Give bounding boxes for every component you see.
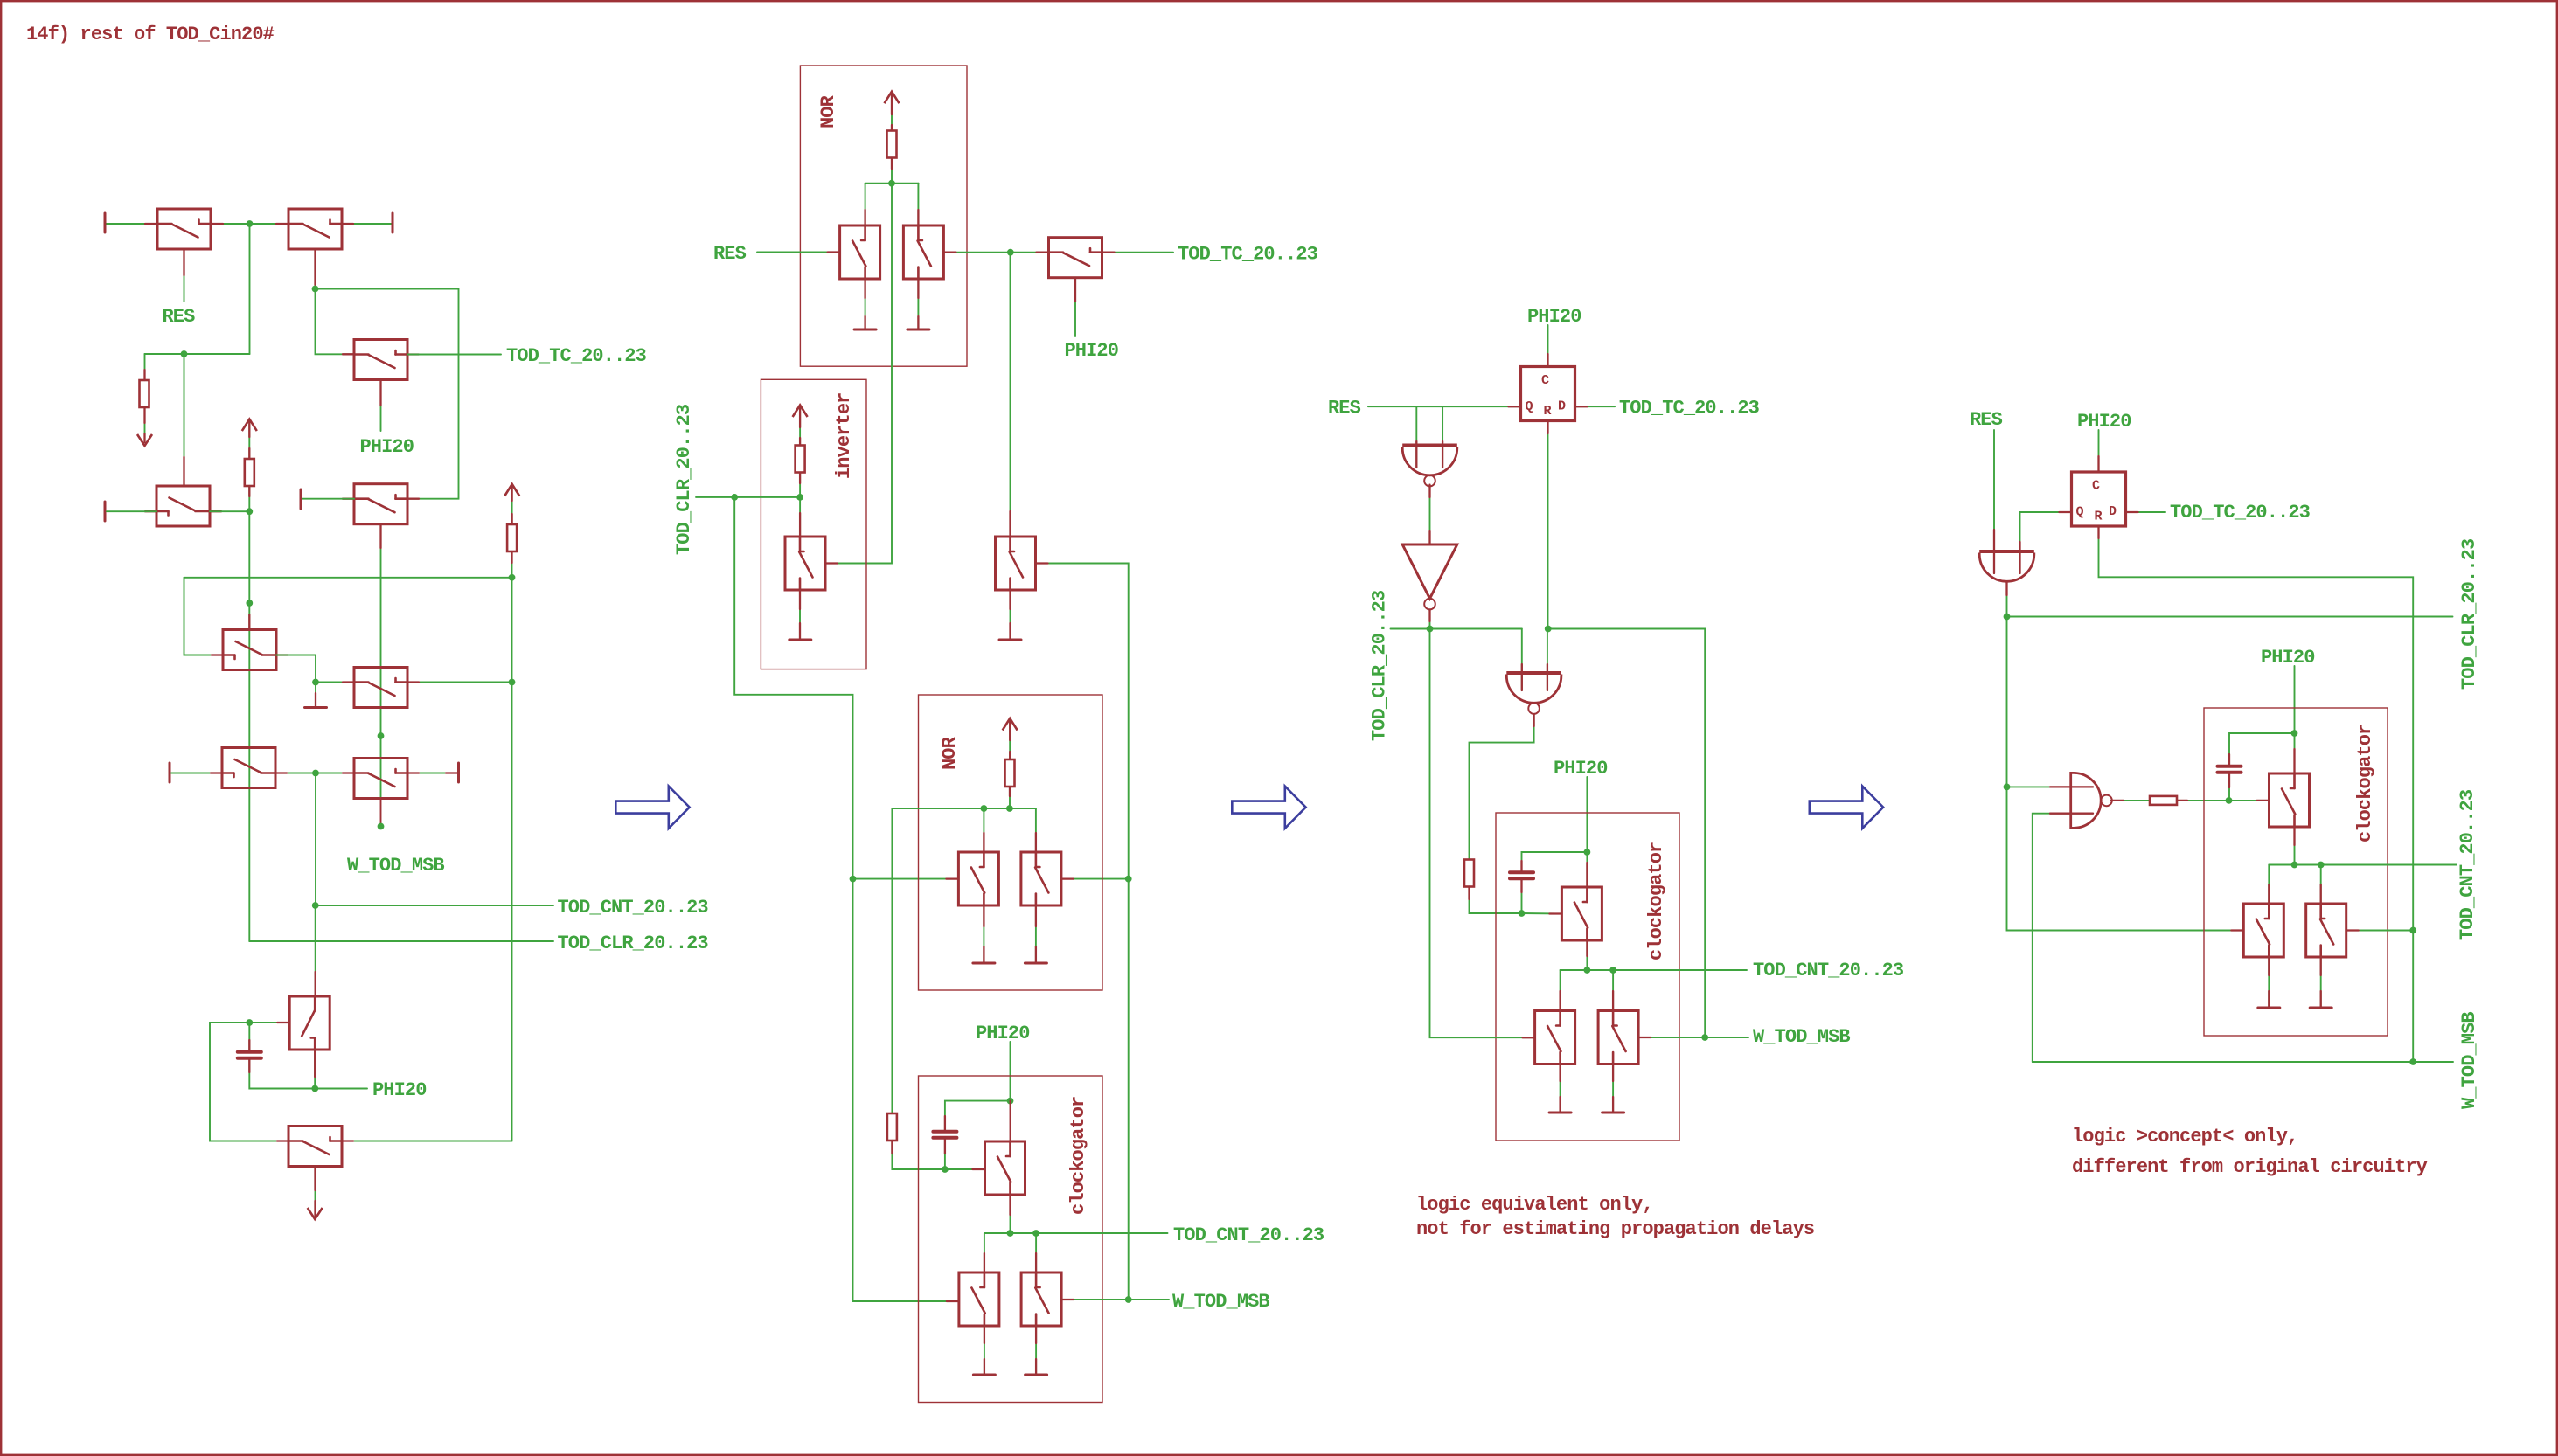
TOD_CNT row panel4: [2269, 864, 2457, 866]
junction Tg1 gate node: [942, 1166, 949, 1173]
wire cap to PHI20 node: [2229, 733, 2295, 765]
NOR2 arrow to resistor: [1009, 721, 1011, 759]
wire RES-Q row: [1368, 406, 1521, 407]
wire TOD_CLR label to node: [696, 496, 800, 498]
wire Q4 to ground: [983, 905, 984, 963]
arrow panel3 to panel4: [1810, 787, 1883, 829]
wire T9 gate W_TOD_MSB: [380, 799, 382, 823]
transistor T4: [354, 340, 407, 380]
junction Tg1 top node: [1007, 1098, 1014, 1105]
rail2 long horizontal: [184, 577, 512, 579]
svg-text:PHI20: PHI20: [976, 1023, 1030, 1044]
wire NOR3 out to inverter: [1429, 485, 1431, 544]
rail2 left corner to T6: [184, 578, 224, 655]
wire T2 gate down: [315, 249, 316, 289]
junction row Th1: [1584, 967, 1591, 974]
wire T10 bottom to PHI20 rail: [314, 1050, 316, 1089]
wire node to Th1 gate: [1522, 912, 1562, 915]
svg-text:TOD_TC_20..23: TOD_TC_20..23: [1619, 398, 1760, 419]
ground Q3: [789, 639, 811, 641]
wire node to capacitor: [248, 1023, 250, 1051]
arrow down out: [137, 434, 152, 446]
transistor Q3 vertical: [785, 537, 825, 590]
TOD_CNT row panel2: [984, 1232, 1168, 1234]
wire R3 to T3-node: [248, 486, 250, 511]
wire T1 gate RES: [184, 249, 185, 302]
wire Th3 gate W_TOD: [1638, 1037, 1748, 1038]
junction W_TOD panel3: [1701, 1034, 1708, 1041]
wire R1 to arrow: [144, 407, 146, 442]
wire T6 right to T7 left: [276, 655, 316, 683]
wire rail2 down to T7 right: [511, 578, 513, 683]
junction T6 gate: [246, 600, 253, 607]
transistor T7: [354, 668, 407, 708]
wire down to T11 right: [511, 683, 513, 1141]
pull-up arrow at x285: [242, 419, 257, 432]
junction Th1 top node: [1584, 849, 1591, 856]
wire W_TOD up to NAND B: [2033, 814, 2093, 1062]
wire PHI20 to FF clock: [1547, 325, 1549, 367]
svg-text:NOR: NOR: [939, 736, 961, 770]
junction Tk1 gate node: [2226, 797, 2233, 804]
wire Tk1 bottom to row: [2294, 827, 2296, 865]
wire node up to cap: [1521, 880, 1523, 913]
svg-text:clockogator: clockogator: [2354, 725, 2376, 842]
junction W_TOD panel4: [2409, 1058, 2416, 1065]
svg-text:R: R: [1544, 404, 1552, 419]
RES rail: [145, 353, 250, 355]
svg-text:NOR: NOR: [817, 94, 839, 128]
svg-text:clockogator: clockogator: [1067, 1097, 1089, 1215]
wire Th3 to ground: [1612, 1064, 1614, 1113]
svg-text:Q: Q: [1526, 399, 1533, 414]
ground Tg3: [1025, 1374, 1047, 1376]
transistor T10 vertical: [289, 996, 330, 1050]
wire node to Tk1 gate: [2229, 800, 2270, 801]
transistor Tb1: [1049, 238, 1102, 278]
wire terminal to T8: [171, 773, 222, 774]
svg-text:clockogator: clockogator: [1645, 842, 1667, 960]
junction NOR2 bar Q4: [981, 805, 988, 812]
ground Tk3: [2310, 1007, 2332, 1009]
svg-text:W_TOD_MSB: W_TOD_MSB: [1753, 1026, 1850, 1048]
wire resistor to gate node: [1470, 887, 1522, 914]
svg-text:not for estimating propagation: not for estimating propagation delays: [1416, 1218, 1814, 1240]
wire NAND out to resistor: [2111, 800, 2150, 801]
svg-text:PHI20: PHI20: [1065, 340, 1119, 362]
wire PHI20 to FF2 clock: [2098, 430, 2100, 472]
transistor Q2 vertical: [903, 225, 943, 279]
wire TOD_CNT to T10: [315, 905, 316, 996]
wire Tg3 gate W_TOD_MSB: [1061, 1299, 1169, 1300]
wire node to Q3: [799, 497, 801, 537]
rail corner to NOR4 input A: [1521, 629, 1523, 691]
wire arrow to R2: [511, 487, 513, 524]
ground Tk2: [2258, 1007, 2280, 1009]
node junction T1/T2: [247, 220, 254, 227]
transistor T9: [354, 759, 407, 799]
row corner to Tk2 top: [2268, 865, 2270, 905]
junction row Th3: [1609, 967, 1616, 974]
resistor R3 pullup: [245, 459, 254, 486]
wire Tk3 to ground: [2320, 957, 2322, 1008]
clockogator4 frame: [2204, 708, 2388, 1036]
svg-text:TOD_CNT_20..23: TOD_CNT_20..23: [558, 897, 709, 919]
wire terminal to T5: [302, 498, 354, 500]
wire T1-left terminal net: [106, 223, 157, 225]
W_TOD row panel4: [2033, 1061, 2453, 1063]
junction Q4 gate branch: [850, 876, 857, 883]
NOR2 pullup arrow: [1003, 718, 1018, 731]
wire T4 right to TOD_TC label: [407, 354, 501, 356]
svg-text:C: C: [2092, 479, 2100, 494]
wire rail to T3 gate: [184, 354, 185, 486]
NOR1 output junction: [888, 180, 895, 187]
NOR2 pullup resistor: [1005, 759, 1015, 787]
wire RES to Q1 gate: [757, 252, 840, 253]
ground Tc1: [999, 639, 1021, 641]
svg-text:TOD_TC_20..23: TOD_TC_20..23: [506, 345, 647, 367]
transistor Tk2 vertical: [2243, 904, 2283, 957]
transistor Th1 vertical: [1561, 887, 1602, 940]
TOD_CLR rail panel3: [1391, 628, 1522, 630]
junction TOD_CNT: [312, 902, 319, 909]
svg-text:D: D: [2109, 504, 2117, 519]
wire PHI20 down to node: [2294, 666, 2296, 733]
wire PHI20 down: [1010, 1042, 1011, 1101]
svg-text:D: D: [1558, 399, 1566, 414]
transistor Q4 vertical: [958, 852, 998, 905]
wire node to T10 gate: [249, 1022, 289, 1023]
NOR1 out to Q3 gate: [825, 184, 892, 564]
wire RES down to NOR5 A: [1993, 430, 1995, 573]
flip-flop FF2: [2072, 472, 2126, 526]
wire cap to gate node: [944, 1140, 946, 1170]
terminal left of T5: [300, 489, 302, 509]
TOD_CNT row panel3: [1561, 969, 1747, 971]
inverter pullup arrow: [793, 406, 808, 418]
svg-text:RES: RES: [1328, 398, 1361, 419]
wire node down to Tk2 gate: [2007, 787, 2244, 930]
wire node down to RES rail: [249, 224, 251, 354]
junction NAND A node: [2004, 784, 2011, 791]
wire Q2 gate to node: [943, 252, 1048, 253]
NOR2 out chain to resistor: [891, 808, 893, 1113]
junction row Tg3: [1032, 1230, 1039, 1237]
wire TOD_CLR to Th2 gate: [1430, 629, 1535, 1038]
terminal left of T8: [169, 763, 171, 782]
terminal left of T1: [104, 213, 107, 232]
junction TOD_CLR panel4: [2004, 614, 2011, 621]
row corner to Tg2 top: [984, 1233, 985, 1272]
transistor T2: [288, 209, 342, 249]
wire node loop to T11 left: [210, 1023, 288, 1141]
svg-text:W_TOD_MSB: W_TOD_MSB: [2458, 1012, 2480, 1109]
transistor Th2 vertical: [1535, 1011, 1575, 1064]
wire node down to Tc1: [1010, 253, 1011, 537]
ground Th2: [1549, 1112, 1571, 1114]
ground under T7 left: [305, 706, 327, 709]
svg-text:RES: RES: [713, 243, 747, 265]
junction PHI20 panel1: [311, 1085, 318, 1092]
junction T3 right node: [246, 508, 253, 515]
NOR1 resistor to bar: [891, 158, 893, 184]
capacitor C4: [2218, 765, 2242, 768]
svg-text:TOD_CLR_20..23: TOD_CLR_20..23: [558, 933, 709, 954]
series resistor NAND out: [2150, 796, 2177, 805]
junction Tk1 top node: [2291, 730, 2298, 737]
transistor T5: [354, 484, 407, 524]
wire Tk2 to ground: [2268, 957, 2270, 1008]
svg-text:PHI20: PHI20: [1554, 758, 1608, 780]
transistor Tk3 vertical: [2306, 904, 2346, 957]
wire Tg3 to ground: [1035, 1326, 1037, 1375]
wire TOD_CNT label: [316, 905, 553, 906]
ground Q4: [973, 962, 995, 965]
wire Q2 to ground: [917, 279, 919, 329]
resistor R2 pullup: [507, 524, 517, 551]
NOR1 frame: [800, 66, 967, 366]
transistor Th3 vertical: [1598, 1011, 1638, 1064]
wire node to Tg1 gate: [945, 1168, 985, 1170]
wire Q3 to ground: [799, 590, 801, 640]
wire to TOD_TC via T4 loop: [316, 289, 459, 499]
junction Th1 gate node: [1519, 910, 1526, 917]
junction T7 right: [509, 679, 516, 686]
junction T2 gate: [312, 286, 319, 293]
junction rail INV1: [1427, 626, 1434, 633]
svg-text:TOD_CLR_20..23: TOD_CLR_20..23: [2458, 538, 2480, 690]
wire junction down to TOD_CNT: [315, 773, 316, 906]
junction T7 left: [312, 679, 319, 686]
wire R net to NOR4 input B: [1547, 629, 1548, 691]
svg-text:TOD_CNT_20..23: TOD_CNT_20..23: [2457, 789, 2478, 940]
junction row Tk1: [2291, 862, 2298, 869]
wire FF1 D to TOD_TC: [1575, 406, 1616, 407]
svg-text:C: C: [1541, 373, 1549, 388]
wire T5 gate long down: [380, 524, 382, 798]
junction TOD_CLR branch: [731, 494, 738, 501]
svg-text:PHI20: PHI20: [2077, 411, 2131, 433]
wire T7 right: [407, 682, 512, 683]
NOR1 arrow to resistor: [891, 94, 893, 131]
NOR gate NOR4: [1506, 671, 1561, 675]
NOR1 bar to Q2: [917, 184, 919, 225]
wire node to Th1 top: [1586, 852, 1588, 887]
terminal left of T3: [104, 502, 107, 521]
svg-text:TOD_CLR_20..23: TOD_CLR_20..23: [1369, 590, 1391, 741]
wire Th1 bottom to row: [1586, 940, 1588, 970]
wire arrow to R3: [248, 421, 250, 459]
wire Tc1 gate right loop to Q5 gate: [1036, 564, 1129, 1300]
junction row Tk3: [2318, 862, 2325, 869]
wire to NAND input A: [2007, 786, 2094, 787]
NOR1 pullup resistor: [887, 131, 897, 158]
wire T11 right: [342, 1141, 512, 1142]
wire node up to cap: [2228, 774, 2230, 801]
wire TOD_CLR down to Q4 gate and Tg2 gate: [734, 497, 959, 1301]
wire cap to PHI20 node: [1522, 852, 1588, 871]
ground Th3: [1602, 1112, 1624, 1114]
series resistor NOR4 out: [1464, 860, 1474, 887]
wire FF2 R loop: [2099, 526, 2414, 1062]
junction inverter out: [796, 494, 803, 501]
ground Q2: [907, 329, 929, 331]
wire Tg1 bottom to row: [1010, 1195, 1011, 1233]
svg-text:W_TOD_MSB: W_TOD_MSB: [347, 855, 444, 877]
junction T10 gate node: [246, 1019, 253, 1026]
svg-text:Q: Q: [2076, 505, 2084, 520]
row to Tg3 top: [1035, 1233, 1037, 1272]
row corner to Th2 top: [1560, 970, 1561, 1011]
wire FF2 Q to NOR5 B: [2020, 512, 2072, 573]
svg-text:inverter: inverter: [833, 393, 855, 479]
wire rail to R1: [144, 354, 146, 380]
wire Tb1 gate PHI20: [1074, 278, 1076, 336]
wire T9 right to terminal: [407, 773, 457, 774]
wire R net right loop: [1548, 629, 1706, 1038]
flip-flop FF1: [1521, 367, 1575, 421]
junction RES rail: [181, 350, 188, 357]
wire terminal to T3: [107, 510, 156, 512]
svg-text:TOD_TC_20..23: TOD_TC_20..23: [2170, 502, 2311, 523]
transistor T11: [288, 1127, 342, 1167]
junction T8/T9: [312, 770, 319, 777]
svg-text:TOD_CLR_20..23: TOD_CLR_20..23: [673, 404, 695, 555]
junction Tk3 gate net: [2409, 927, 2416, 934]
inverter resistor to node: [799, 473, 801, 497]
wire T1-T2 node with junction: [211, 223, 288, 225]
inverter frame: [761, 379, 866, 669]
NOR1 bar to Q1: [865, 184, 866, 225]
row to Th3 top: [1612, 970, 1614, 1011]
wire T2gate to T4 left: [316, 289, 355, 355]
TOD_CLR rail panel4: [2007, 616, 2453, 618]
transistor Q1 vertical: [840, 225, 880, 279]
wire branch to Q5 gate: [1061, 878, 1129, 880]
wire NOR4 out: [1470, 714, 1534, 859]
resistor R1 pulldown: [140, 380, 149, 407]
wire PHI20 down to node: [1586, 777, 1588, 852]
inverter resistor: [796, 446, 805, 473]
svg-text:logic equivalent only,: logic equivalent only,: [1416, 1194, 1653, 1216]
wire FF1 R down: [1547, 421, 1549, 629]
NOR gate NOR5: [1979, 550, 2034, 553]
wire TOD_CLR label: [249, 940, 553, 942]
arrow down out panel1: [308, 1208, 323, 1219]
inverter arrow to resistor: [799, 407, 801, 446]
row to Tk3 top: [2320, 865, 2322, 905]
capacitor C2: [933, 1130, 956, 1134]
svg-text:TOD_TC_20..23: TOD_TC_20..23: [1178, 244, 1318, 266]
svg-text:RES: RES: [163, 306, 196, 328]
svg-text:TOD_CNT_20..23: TOD_CNT_20..23: [1173, 1224, 1324, 1246]
wire node down to Tg1 top: [1010, 1101, 1011, 1141]
transistor Tk1 vertical: [2270, 773, 2310, 827]
wire Q5 to ground: [1035, 905, 1037, 963]
wire resistor to gate node: [2177, 800, 2229, 801]
svg-text:RES: RES: [1970, 409, 2003, 431]
wire Tc1 to ground: [1010, 590, 1011, 640]
inverter INV1: [1402, 544, 1457, 599]
svg-text:different from original circui: different from original circuitry: [2072, 1156, 2428, 1178]
clockogator3 frame: [1496, 813, 1679, 1141]
transistor T3: [156, 486, 210, 526]
wire node to Tk1 top: [2294, 733, 2296, 773]
capacitor C1: [238, 1050, 261, 1054]
wire Q to NOR3 input B: [1442, 406, 1443, 468]
svg-text:TOD_CNT_20..23: TOD_CNT_20..23: [1753, 960, 1904, 981]
svg-text:PHI20: PHI20: [1527, 306, 1581, 328]
junction rail2 right: [509, 574, 516, 581]
svg-text:14f) rest of TOD_Cin20#: 14f) rest of TOD_Cin20#: [26, 24, 275, 45]
wire R2 to rail2: [511, 551, 513, 578]
svg-text:logic >concept< only,: logic >concept< only,: [2072, 1126, 2297, 1147]
transistor Tg3 vertical: [1021, 1272, 1061, 1326]
wire Q1 to ground: [865, 279, 866, 329]
ground Q1: [854, 329, 876, 331]
NOR2 bar to Q4 top: [983, 808, 984, 852]
junction W_TOD_MSB panel2: [1125, 1296, 1132, 1303]
svg-text:PHI20: PHI20: [360, 436, 414, 458]
NOR2 bar to Q5 top: [1035, 808, 1037, 852]
transistor T1: [157, 209, 211, 249]
terminal right of T2: [392, 213, 394, 232]
junction row Tg1: [1007, 1230, 1014, 1237]
svg-text:PHI20: PHI20: [372, 1079, 427, 1101]
ground Tg2: [973, 1374, 995, 1376]
wire node down to NAND A: [2006, 617, 2008, 787]
NOR gate NOR3: [1402, 444, 1457, 447]
terminal right of T9: [457, 763, 460, 782]
wire branch to Q4 gate: [853, 878, 959, 880]
NOR2 resistor to bar: [1009, 787, 1011, 808]
NOR1 pullup arrow: [885, 92, 900, 104]
wire Tg2 to ground: [984, 1326, 985, 1375]
capacitor C3: [1510, 870, 1533, 874]
clockogator2 frame: [919, 1076, 1103, 1403]
arrow panel2 to panel3: [1232, 787, 1305, 829]
ground Q5: [1025, 962, 1046, 965]
svg-text:PHI20: PHI20: [2261, 647, 2315, 669]
wire to NOR3 input A: [1415, 406, 1417, 468]
svg-text:W_TOD_MSB: W_TOD_MSB: [1172, 1291, 1269, 1313]
NOR1 drain bar: [865, 183, 919, 184]
NOR2 frame: [919, 695, 1103, 990]
wire INV1 out to rail: [1429, 609, 1431, 628]
junction NOR1 input B node: [1007, 249, 1014, 256]
wire node down through T6 T8 to TOD_CLR corner: [248, 511, 250, 941]
svg-text:R: R: [2095, 510, 2103, 524]
arrow panel1 to panel2: [615, 787, 689, 829]
wire cap to PHI20 rail: [249, 1060, 367, 1089]
wire T8 right to T9: [275, 773, 354, 774]
NOR2 drain bar: [892, 808, 1036, 809]
wire NOR5 out to node: [2006, 582, 2008, 617]
pull-up arrow at x585: [504, 484, 519, 496]
wire Th2 to ground: [1560, 1064, 1561, 1113]
wire resistor to gate node: [892, 1141, 945, 1169]
transistor Tg1 vertical: [985, 1141, 1025, 1195]
junction FF R net: [1545, 626, 1552, 633]
transistor Tg2 vertical: [959, 1272, 999, 1326]
NAND gate NAND4: [2071, 773, 2102, 828]
junction W_TOD_MSB stub: [378, 823, 385, 830]
wire junction to ground: [315, 683, 316, 694]
transistor T6: [223, 630, 276, 670]
wire T2 right to terminal: [342, 223, 392, 225]
wire Tb1 to TOD_TC label: [1102, 252, 1174, 253]
